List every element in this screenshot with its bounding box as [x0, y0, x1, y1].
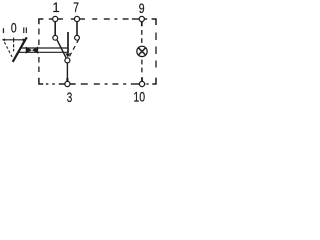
label: position mark I — [3, 28, 4, 33]
rocking double-headed arrow — [2, 38, 26, 41]
housing dashed border: top — [49, 18, 147, 20]
coupling bowtie — [26, 47, 39, 54]
contact circle under 1 — [53, 35, 58, 40]
wire: terminal 3 stub — [66, 78, 68, 81]
terminal 7 — [74, 16, 79, 21]
housing corner top-left — [39, 19, 44, 24]
actuator centre mark — [13, 38, 15, 52]
wire: dashed lamp feed to 10 — [141, 60, 143, 73]
moving contact arm alternate (dashed to 7) — [69, 39, 79, 57]
wire: dashed lamp feed from 9 — [141, 30, 143, 43]
svg-text:3: 3 — [67, 89, 73, 105]
actuator lever — [13, 37, 27, 62]
pivot circle — [65, 58, 70, 63]
svg-text:9: 9 — [139, 1, 145, 17]
wire: terminal 10 stub — [141, 77, 143, 81]
housing corner top-right — [152, 19, 156, 25]
moving contact arm (closed to 1) — [57, 40, 66, 58]
background — [0, 0, 160, 106]
svg-text:0: 0 — [11, 20, 17, 36]
housing dashed border: left — [38, 29, 40, 73]
housing dashed border: bottom — [46, 83, 149, 85]
contact circle under 7 — [75, 35, 80, 40]
svg-text:10: 10 — [133, 89, 145, 105]
actuator triangle (dashed) — [4, 42, 23, 58]
terminal 10 — [139, 81, 144, 86]
housing corner bottom-right — [152, 78, 156, 84]
terminal 3 — [65, 81, 70, 86]
mechanical linkage double line — [18, 48, 68, 52]
terminal 1 — [53, 16, 58, 21]
lamp L — [137, 46, 147, 56]
wire: pivot to terminal 3 — [66, 63, 68, 79]
pushrod arrowhead — [65, 53, 70, 57]
wire: terminal 9 stub — [141, 22, 143, 27]
wire: terminal 7 to contact — [76, 22, 78, 36]
housing corner bottom-left — [39, 78, 43, 84]
actuating pushrod — [67, 32, 69, 53]
wire: terminal 1 to contact — [54, 22, 56, 36]
svg-text:1: 1 — [52, 0, 59, 15]
housing dashed border: right — [155, 33, 157, 68]
label: position mark II — [23, 27, 27, 33]
svg-text:7: 7 — [73, 0, 79, 15]
terminal 9 — [139, 16, 144, 21]
